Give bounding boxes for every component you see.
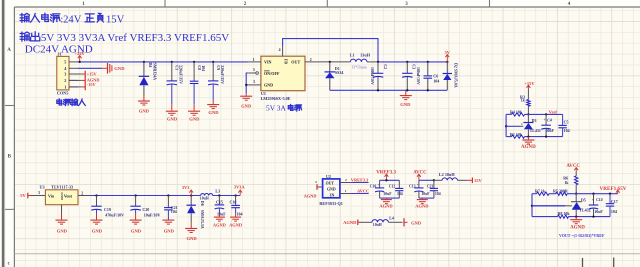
svg-text:D4: D4 [148,63,153,68]
svg-text:AGND: AGND [343,220,357,225]
wire Vref top rail [506,113,562,115]
junction C9 [212,61,214,63]
svg-text:D5: D5 [581,197,586,202]
ground AGND under TL431 [521,137,536,151]
ground GND under C1 [166,111,178,121]
wire 3.3V rail [91,195,241,197]
ground AGND under C10/C12 [379,200,393,209]
net label AGND at J1 pin2 [69,77,99,84]
ground AGND under C15 [213,217,226,227]
svg-text:AGND: AGND [229,222,242,227]
svg-text:GND: GND [208,110,219,115]
junction C4 bottom [545,135,547,137]
svg-text:LM2596SX-5.0E: LM2596SX-5.0E [261,96,291,101]
svg-text:100uF/16V: 100uF/16V [416,67,420,85]
wire TL431 ref [506,122,523,126]
svg-text:GND: GND [264,83,273,88]
svg-text:1: 1 [345,189,347,193]
resistor R6 1k [563,171,578,193]
wire TL432 top rail [532,193,618,195]
junction C21 [167,194,169,196]
power port VREF1.65V [600,186,627,194]
svg-text:104: 104 [611,209,617,214]
svg-text:GND: GND [186,236,197,241]
net label AGND (L4 left) [343,220,360,226]
inductor L2 10uH [434,172,467,180]
svg-text:GND: GND [57,228,68,233]
svg-text:AGND: AGND [379,204,393,209]
junction C23/L2 [433,179,435,181]
ground GND under C21 [162,220,174,233]
junction D1 [329,61,331,63]
svg-text:4: 4 [279,48,281,52]
svg-text:L3: L3 [215,189,220,194]
ground GND under C20 [130,220,142,233]
svg-text:AGND: AGND [213,222,226,227]
resistor R3 1k [520,89,530,115]
svg-text:AGND: AGND [570,225,585,230]
formula note [559,233,605,238]
svg-text:104: 104 [433,78,439,83]
ground GND under U1 [240,96,252,108]
power port AVCC [413,171,427,181]
ground GND (rotated right) at J1 pin4 [108,63,126,74]
junction TL431 anode [527,135,529,137]
junction C1 [171,61,173,63]
svg-text:+: + [378,183,380,187]
power port 3V3A [234,185,246,196]
TVS diode D4 SMBJ24A [139,62,158,101]
U1 pin 2 OUT [305,58,318,62]
svg-text:SMBJ24A: SMBJ24A [152,63,157,81]
diode D1 SS34 [325,62,344,90]
svg-text:C17: C17 [611,199,618,204]
U2 pin 3 / net AGND [304,180,323,199]
svg-text:5V: 5V [20,193,26,198]
svg-text:15V: 15V [106,14,125,25]
svg-text:104: 104 [201,65,206,71]
svg-text:104: 104 [237,212,243,217]
junction bottom C6 [427,89,429,91]
svg-text:C12: C12 [389,184,396,188]
wire VREF3.3 cap rail [380,179,400,181]
U1 pin 1 VIN [248,58,261,62]
junction C4 top [545,113,547,115]
junction C14 bottom [592,215,594,217]
svg-text:SS34: SS34 [335,70,343,75]
svg-text:10uF: 10uF [383,192,392,196]
svg-text:10uF: 10uF [421,192,430,196]
resistor R4 10k [510,109,525,116]
svg-text:104: 104 [171,209,177,214]
junction +24V at J1 [79,61,81,63]
wire Vref bottom rail [506,136,562,138]
svg-text:GND: GND [411,220,422,225]
svg-text:VREF1.65V: VREF1.65V [600,186,627,192]
svg-text:OUT: OUT [291,60,300,65]
svg-text:R5 200R: R5 200R [553,189,568,194]
svg-text:C5: C5 [564,120,569,125]
capacitor C14 10uF [589,194,604,217]
svg-text:REF5033-Q1: REF5033-Q1 [319,201,343,206]
svg-text:SMAJ3.3A: SMAJ3.3A [200,210,205,229]
U3 pin 2 Vout [78,191,91,195]
svg-text:10uH: 10uH [200,197,209,201]
svg-text:GND: GND [92,228,103,233]
wire TL432 bottom rail [532,216,610,218]
svg-text:GND: GND [241,103,252,108]
svg-text:1: 1 [253,58,255,62]
inductor L1 33uH [350,53,371,70]
shunt reference D3 TL431 [523,114,541,136]
svg-text:+24V: +24V [75,51,86,56]
junction C3 [406,61,408,63]
svg-text:-15V: -15V [87,82,97,87]
capacitor C10 10uF [370,180,393,198]
ground GND under D6 [185,229,197,242]
svg-text:GND: GND [164,228,175,233]
wire FB feedback U1 top to C2 node [283,39,378,62]
svg-text:OUT: OUT [326,181,335,185]
junction C20 [134,194,136,196]
ground GND under C8 [188,111,200,121]
svg-text:U2: U2 [326,174,331,179]
svg-text:AGND: AGND [521,145,536,150]
power port AVCC (TL432) [566,164,580,171]
svg-text:3V3A: 3V3A [234,185,246,190]
junction ref [505,125,507,127]
svg-text:470uF/10V: 470uF/10V [105,212,124,217]
svg-text:220uF/35V: 220uF/35V [220,65,225,84]
U2 pin 1 / net AVCC [340,189,369,194]
svg-text:GND: GND [131,228,142,233]
junction U1 gnd [245,84,247,86]
ground AGND under TL432 [570,217,585,231]
capacitor C13 10uF [409,180,430,198]
svg-text:10uF/10V: 10uF/10V [144,212,161,217]
svg-text:L4: L4 [389,216,394,221]
wire J1 pin4 to GND [78,67,107,69]
svg-text:GND: GND [400,102,411,107]
junction TL432 anode [575,215,577,217]
svg-text:5V 3V3 3V3A Vref VREF3.3: 5V 3V3 3V3A Vref VREF3.3 VREF1.65V [41,32,229,44]
svg-text:+: + [592,198,594,202]
caption: 5V 3A power (CJK) [266,104,302,113]
svg-text:C4: C4 [547,117,552,122]
junction D4 [143,61,145,63]
svg-text:104: 104 [435,192,441,196]
TVS diode D2 SMAJ5.0A [443,62,459,90]
wire TL432 left rail [531,194,533,217]
title line 1: input power note [20,13,124,25]
svg-text:GND: GND [60,192,64,200]
svg-text:13*13mm: 13*13mm [352,65,367,69]
capacitor C20 10uF/10V [130,196,160,220]
svg-text:VREF3.3: VREF3.3 [376,171,396,176]
resistor R1 10k [510,132,525,139]
application panel bar [2,0,5,267]
title line 2: output rails note [20,32,229,44]
svg-text:2: 2 [81,191,83,195]
junction C16 [234,194,236,196]
svg-text:+: + [417,183,419,187]
junction R3/divider [527,113,529,115]
svg-text:C16: C16 [230,200,237,205]
wire AVCC caps bottom [419,198,434,199]
svg-text:FB: FB [284,59,288,64]
svg-text:33uH: 33uH [360,53,371,58]
junction TL432 ref [531,205,533,207]
capacitor C2 100uF/16V [370,62,388,90]
net label Vref [549,109,558,114]
wire AVCC cap rail [419,179,434,181]
junction R6 [575,193,577,195]
capacitor C17 104 [606,194,618,217]
U3 gnd pin down [61,205,63,220]
svg-text:5: 5 [64,60,66,65]
svg-text:R4 10k: R4 10k [510,109,523,114]
svg-text:Vout: Vout [64,194,73,199]
svg-text:2: 2 [310,58,312,62]
svg-text:AGND: AGND [304,194,317,199]
wire 5V to U3 [31,191,45,195]
svg-text:1: 1 [64,85,66,90]
svg-text:10uF: 10uF [217,212,226,217]
wire divider left rail [505,114,507,136]
svg-text:D2 SMAJ5.0A: D2 SMAJ5.0A [454,63,459,88]
svg-text:2: 2 [64,78,66,83]
title block lines [583,258,614,267]
resistor R7 1k [535,189,549,196]
wire +24V rail J1 pin5 to U1 VIN [78,61,249,63]
svg-text:IN: IN [330,193,335,197]
svg-text:GND: GND [114,66,125,71]
net label -15V at J1 pin1 [69,82,97,90]
capacitor C19 470uF/10V [91,196,124,220]
capacitor C21 104 [164,196,178,220]
svg-text:GND: GND [327,188,336,192]
svg-text:GND: GND [189,117,200,122]
svg-text:10uH: 10uH [373,223,382,227]
capacitor C15 10uF [215,196,227,217]
svg-text:C10: C10 [370,184,377,188]
junction bottom C3 [406,89,408,91]
svg-text:AVCC: AVCC [413,171,427,176]
svg-text:VIN: VIN [264,60,272,65]
svg-text:R7 1k: R7 1k [535,189,546,194]
svg-text:104: 104 [564,128,570,133]
svg-text:15V: 15V [474,178,483,183]
svg-text:Vin: Vin [48,194,55,199]
net label 5V input [20,193,31,199]
svg-text:C23: C23 [427,184,434,188]
connector J1 CON5 [57,52,78,96]
U1 pin 3 GND [248,80,261,85]
svg-text:3V3: 3V3 [182,185,190,190]
junction C2/FB [377,61,379,63]
svg-text:3: 3 [315,180,317,184]
svg-text:10uF: 10uF [594,209,603,214]
resistor R8 10k [558,211,571,218]
svg-text:CON5: CON5 [57,90,68,95]
junction C6 [427,61,429,63]
ground GND output stage [400,90,412,107]
svg-text:Vref: Vref [549,109,558,114]
ground AGND under C16 [229,217,242,227]
op-amp U1 LM2596SX-5.0E body [261,56,305,101]
svg-text:C14: C14 [596,197,603,202]
regulator U3 TLV1117-33 body [40,185,79,205]
capacitor C3 100uF/16V [402,62,420,90]
svg-text::24V: :24V [60,14,82,25]
junction D2/5V [446,61,448,63]
U1 pin 5 ON/OFF with bubble [248,68,258,74]
U1 pin 4 FB (top) [279,46,283,56]
caption: power input (CJK) [57,99,85,106]
svg-text:D6: D6 [200,201,205,206]
junction C14 top [592,193,594,195]
wire VREF3.3 caps bottom [380,198,400,199]
inductor L3 10uH [200,189,220,201]
svg-text:1: 1 [521,122,523,126]
svg-text:5V 3A: 5V 3A [266,104,286,113]
junction C17 [609,193,611,195]
wire OUT rail [318,61,448,63]
svg-text:TLV1117-33: TLV1117-33 [51,185,73,190]
capacitor C1 220uF/35V [167,62,184,111]
capacitor C6 104 [424,62,440,90]
svg-text:3: 3 [38,191,40,195]
svg-text:+: + [544,118,546,122]
capacitor C5 104 [558,114,569,136]
svg-text:D3: D3 [532,118,537,123]
power port +15V [524,81,535,89]
junction C8 [193,61,195,63]
power port 3V3 [182,185,193,195]
svg-text:L1: L1 [350,53,355,58]
shunt reference D5 TL432 [571,194,591,217]
junction C19 [95,194,97,196]
svg-text:AVCC: AVCC [357,189,369,194]
svg-text:C13: C13 [409,184,416,188]
capacitor C8 104 [190,62,206,111]
svg-text:10uF: 10uF [545,128,554,133]
net label GND (L4 right) [404,218,422,226]
svg-text:3: 3 [64,72,66,77]
capacitor C16 104 [230,196,243,217]
voltage reference U2 REF5033-Q1 body [319,174,343,206]
wire output stage bottom rail [330,89,448,91]
power port 5V [445,50,451,62]
junction C15 [218,194,220,196]
power port VREF3.3 [376,171,396,181]
junction bottom C2 [377,89,379,91]
svg-text:5: 5 [253,68,255,72]
svg-text:AGND: AGND [415,204,429,209]
svg-text:+15V: +15V [87,71,98,76]
svg-text:+15V: +15V [524,81,535,86]
svg-text:A: A [7,48,11,53]
svg-text:104: 104 [397,192,403,196]
resistor R5 200R [553,189,568,196]
svg-text:GND: GND [139,108,150,113]
capacitor C23 104 [427,180,441,198]
title line 3: DC24V AGND [25,43,93,55]
svg-text:VOUT =(1+R2/R3)*VREF: VOUT =(1+R2/R3)*VREF [559,233,605,238]
junction VREF3.3 [385,179,387,181]
svg-text:R8 10k: R8 10k [558,211,571,216]
svg-text:C2: C2 [383,64,388,69]
net label +15V at J1 pin3 [69,71,98,78]
svg-text:2: 2 [345,178,347,182]
junction 3V3/D6 [190,194,192,196]
ground AGND under C13/C23 [415,200,429,209]
wire U1 ON/OFF + GND to ground [246,73,248,96]
ground GND under U3 [56,220,68,233]
svg-text:3: 3 [253,80,255,84]
wire TL432 ref [532,205,572,207]
capacitor C9 220uF/35V [208,62,225,104]
svg-text:J1: J1 [58,52,62,57]
svg-text:TL431: TL431 [530,128,541,133]
svg-text:U3: U3 [40,185,45,190]
svg-text:L2 10uH: L2 10uH [439,172,455,177]
power port +24V [75,51,86,62]
ground GND under C9 [207,105,219,116]
svg-text:VREF3.3: VREF3.3 [351,178,369,183]
capacitor C4 10uF [541,114,554,136]
svg-text:100uF/16V: 100uF/16V [370,67,374,85]
net label 15V [467,178,482,184]
svg-text:C15: C15 [216,200,223,205]
ground GND under C19 [91,220,103,233]
TVS diode D6 SMAJ3.3A [187,196,206,229]
svg-text:GND: GND [167,117,178,122]
inductor L4 10uH [360,216,403,228]
ground GND under D4 [138,101,150,113]
svg-text:AVCC: AVCC [566,164,580,169]
svg-text:R1 10k: R1 10k [510,132,523,137]
svg-text:220uF/35V: 220uF/35V [179,65,184,84]
capacitor C12 104 [389,180,404,198]
svg-text:5V: 5V [445,50,451,55]
svg-text:ON/OFF: ON/OFF [264,71,280,76]
U2 pin 2 / net VREF3.3 [340,178,369,183]
